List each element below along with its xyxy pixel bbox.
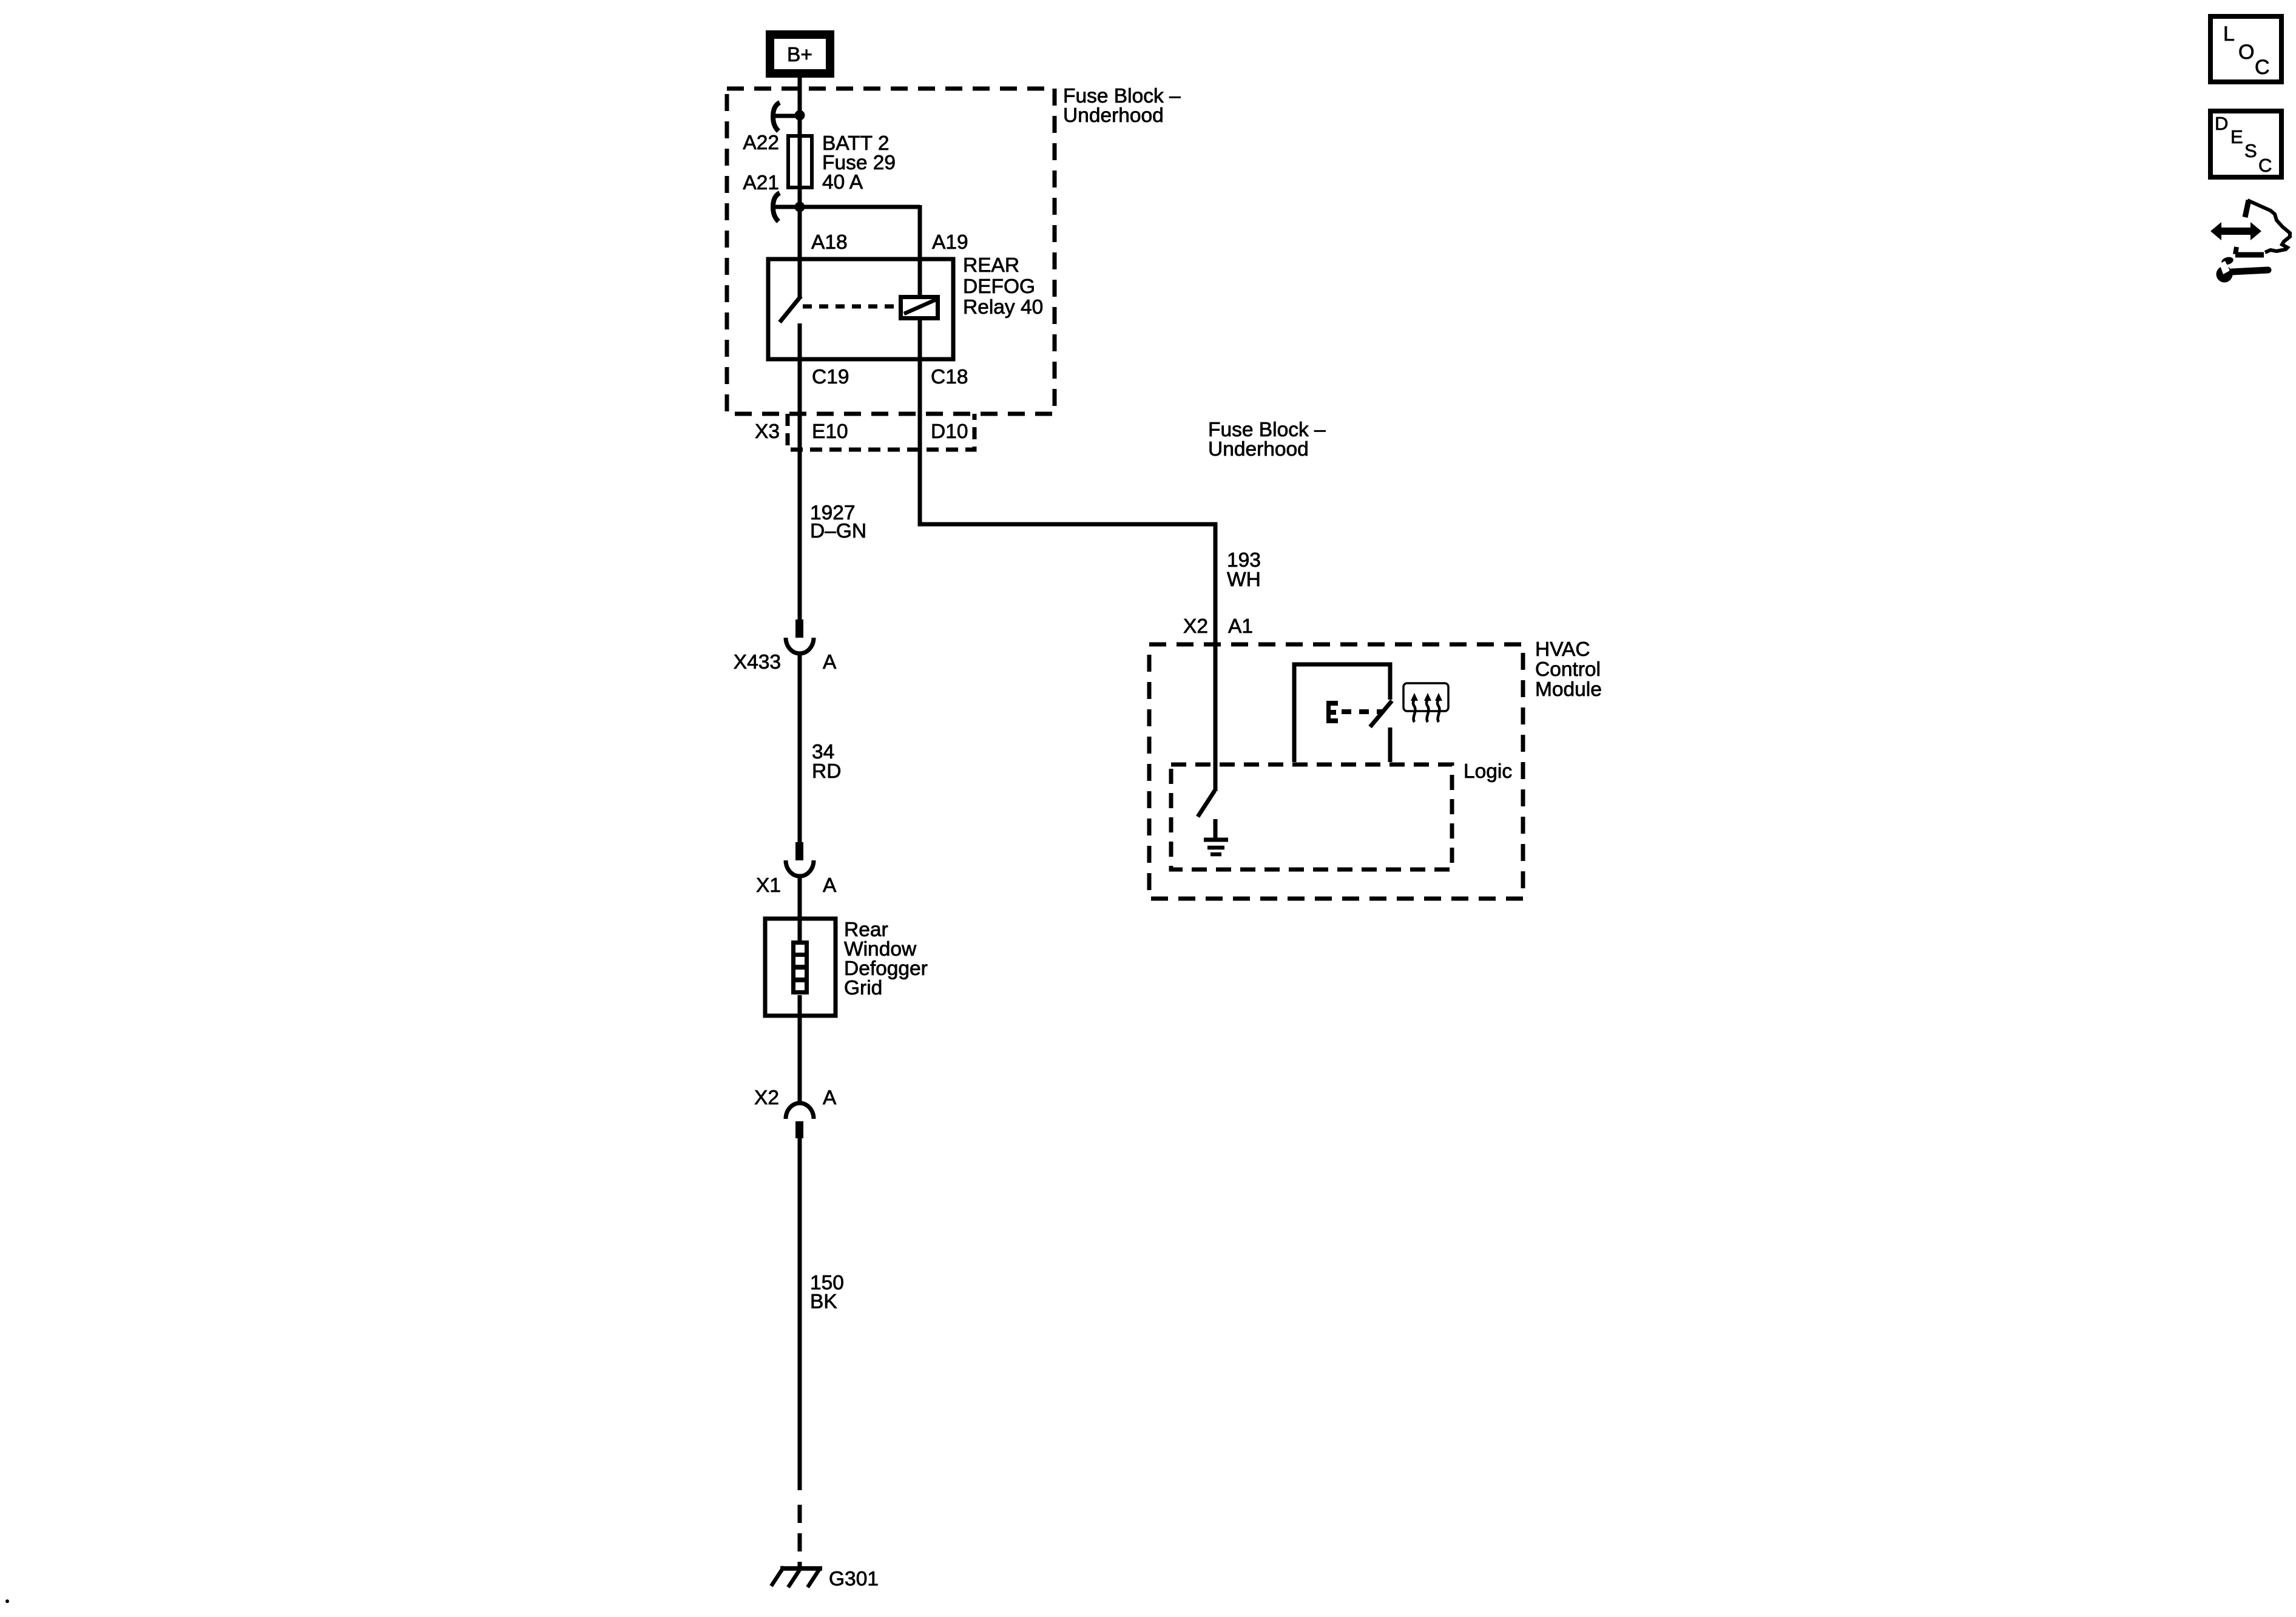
svg-text:B+: B+ xyxy=(787,44,812,66)
svg-text:X2: X2 xyxy=(754,1087,779,1109)
svg-text:Module: Module xyxy=(1535,678,1602,701)
svg-text:Underhood: Underhood xyxy=(1208,438,1309,461)
svg-text:A1: A1 xyxy=(1228,615,1253,638)
svg-text:D10: D10 xyxy=(931,420,968,443)
svg-text:D–GN: D–GN xyxy=(810,520,866,542)
svg-text:C: C xyxy=(2255,56,2270,79)
svg-text:DEFOG: DEFOG xyxy=(963,275,1035,298)
svg-text:X2: X2 xyxy=(1183,615,1208,638)
svg-text:S: S xyxy=(2244,140,2257,161)
svg-text:A19: A19 xyxy=(932,231,968,254)
svg-text:HVAC: HVAC xyxy=(1535,638,1590,661)
svg-text:Grid: Grid xyxy=(844,977,882,999)
svg-text:X1: X1 xyxy=(756,874,781,897)
svg-text:A22: A22 xyxy=(743,132,779,154)
svg-text:A21: A21 xyxy=(743,172,779,194)
svg-text:Logic: Logic xyxy=(1464,760,1512,783)
svg-text:X3: X3 xyxy=(755,420,780,443)
svg-text:Relay 40: Relay 40 xyxy=(963,296,1043,319)
svg-text:O: O xyxy=(2238,41,2254,64)
svg-text:RD: RD xyxy=(812,760,841,783)
svg-text:WH: WH xyxy=(1227,569,1261,591)
svg-text:E10: E10 xyxy=(812,420,848,443)
svg-text:BK: BK xyxy=(810,1291,837,1313)
svg-text:Control: Control xyxy=(1535,658,1601,681)
svg-text:D: D xyxy=(2215,113,2228,134)
svg-text:E: E xyxy=(2230,126,2243,147)
svg-text:40 A: 40 A xyxy=(822,171,863,194)
svg-text:A18: A18 xyxy=(811,231,848,254)
svg-text:A: A xyxy=(823,651,837,673)
svg-text:C19: C19 xyxy=(812,366,849,388)
svg-text:A: A xyxy=(823,1087,837,1109)
svg-text:C: C xyxy=(2258,155,2272,176)
svg-text:A: A xyxy=(823,874,837,897)
svg-text:C18: C18 xyxy=(931,366,968,388)
svg-text:Underhood: Underhood xyxy=(1063,104,1164,127)
svg-text:L: L xyxy=(2223,22,2235,46)
svg-text:G301: G301 xyxy=(829,1568,879,1590)
svg-text:X433: X433 xyxy=(734,651,781,673)
svg-text:REAR: REAR xyxy=(963,254,1019,277)
